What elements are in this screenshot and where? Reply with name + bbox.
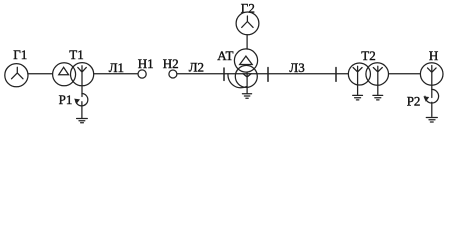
node H2 label [163,56,179,71]
node H1 label [138,56,154,71]
generator G1 [5,64,28,87]
svg-text:Н1: Н1 [138,56,154,71]
line L1 label [109,60,124,75]
H star symbol with neutral [428,66,437,98]
reactor P2 arrowhead [423,96,429,101]
G1 star symbol [12,67,24,79]
reactor P2 label [407,93,421,108]
autotransformer AT winding 1 (delta, top circle) [234,49,257,72]
load node H [420,63,443,86]
transformer T1 winding 1 (delta) [53,63,76,86]
svg-text:Р1: Р1 [59,92,73,107]
tick mark end of L3 [335,68,337,82]
transformer T2 winding 1 (star) [348,63,370,85]
svg-text:Л1: Л1 [109,60,124,75]
wire line L2 from H2 through AT to T2 (line L3) [177,73,348,75]
transformer T1 winding 2 (star) [71,63,94,86]
T2 winding 2 star symbol [373,66,382,94]
transformer T2 winding 2 (star) [366,63,389,86]
reactor P1 lead to ground [81,102,83,118]
T2 winding 1 ground [353,95,363,100]
wire line L1 to node H1 [94,73,138,75]
svg-text:Р2: Р2 [407,93,421,108]
AT star symbol with neutral [243,73,251,94]
AT neutral ground [242,94,251,99]
T1 star symbol with neutral [78,66,87,97]
AT delta triangle [240,56,253,64]
node H2 [169,70,177,78]
svg-text:Н: Н [429,48,438,63]
line L2 label [189,60,204,75]
reactor P1 [76,94,88,106]
svg-text:Л2: Л2 [189,60,204,75]
transformer T2 label [361,48,375,63]
T1 delta triangle [59,67,69,75]
tick mark start of L3 [267,68,269,82]
svg-text:Н2: Н2 [163,56,179,71]
AT series winding hook arc [228,74,247,88]
reactor P2 lead to ground [431,102,433,116]
autotransformer AT winding 2 (star, bottom circle) [235,65,257,87]
line L3 label [289,60,304,75]
node H1 [138,70,146,78]
svg-text:Т2: Т2 [361,48,375,63]
autotransformer AT label [217,48,233,63]
reactor P1 label [59,92,73,107]
svg-text:Л3: Л3 [289,60,304,75]
T2 winding 1 star symbol [353,66,362,94]
wire G1 to T1 [28,73,52,75]
G2 star symbol [242,16,253,27]
transformer T1 label [69,47,83,62]
svg-text:Т1: Т1 [69,47,83,62]
reactor P2 ground [426,118,437,123]
generator G2 [236,12,259,35]
reactor P1 arrowhead [74,99,80,104]
generator G1 label [13,47,27,62]
reactor P1 ground [77,119,88,123]
load node H label [429,48,438,63]
wire T2 to load H [389,73,420,75]
reactor P2 [425,89,439,103]
wire G2 to AT [246,35,248,49]
generator G2 label [241,0,255,15]
svg-text:Г1: Г1 [13,47,27,62]
tick mark end of L2 [223,68,225,80]
T2 winding 2 ground [373,95,383,100]
svg-text:АТ: АТ [217,48,233,63]
